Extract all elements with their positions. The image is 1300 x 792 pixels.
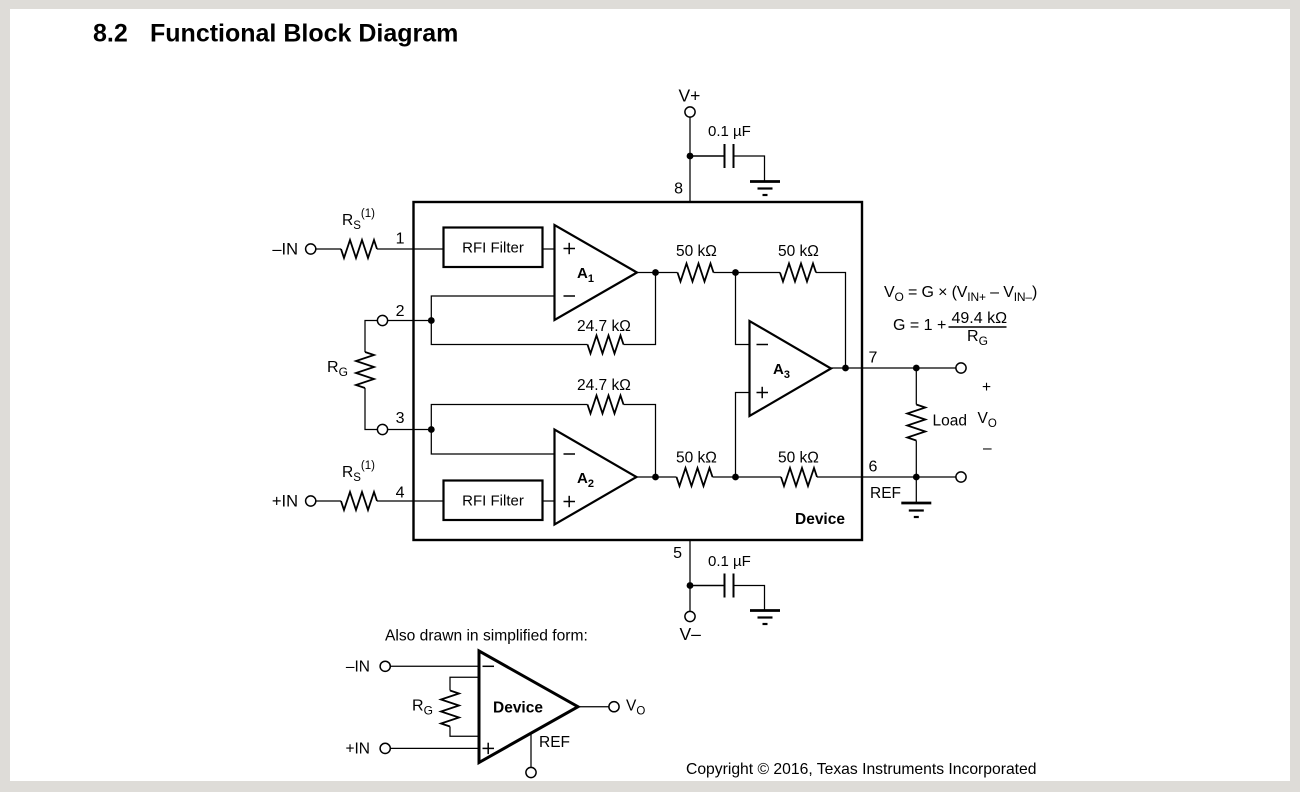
ground G1 xyxy=(750,182,780,196)
node VO terminal xyxy=(956,363,966,373)
wire amplifier output (simplified) xyxy=(578,706,609,708)
wire C2 to ground G3 xyxy=(734,586,765,611)
svg-text:V–: V– xyxy=(680,624,702,644)
wire REF to ground G2 xyxy=(915,477,917,503)
wire A1 minus feedback xyxy=(431,296,587,345)
svg-text:RG: RG xyxy=(967,328,988,348)
wire R2 to A2 output node xyxy=(624,405,656,478)
junction dot A3 minus node xyxy=(732,269,739,276)
svg-text:A2: A2 xyxy=(577,470,594,490)
svg-text:G = 1 +: G = 1 + xyxy=(893,317,946,334)
wire RG top stub (simplified) xyxy=(450,677,479,690)
resistor RS2 xyxy=(341,492,377,510)
wire load bottom xyxy=(915,441,917,478)
node +IN terminal (simplified) xyxy=(380,743,390,753)
wire pin 2 to feedback node xyxy=(388,320,432,322)
resistor RG xyxy=(356,352,374,388)
amplifier minus sign (simplified) xyxy=(483,665,495,667)
wire R3 to A3 minus node xyxy=(714,272,781,274)
op-amp A2 minus sign xyxy=(564,453,576,455)
junction dot V+ / C1 xyxy=(687,153,694,160)
svg-text:RS(1): RS(1) xyxy=(342,460,375,484)
svg-text:VO: VO xyxy=(978,410,997,430)
junction dot pin 3 node xyxy=(428,426,435,433)
svg-text:7: 7 xyxy=(869,350,878,367)
svg-text:RFI Filter: RFI Filter xyxy=(462,493,524,510)
capacitor C1 xyxy=(725,144,734,168)
wire RG bottom xyxy=(365,388,378,430)
svg-text:REF: REF xyxy=(539,734,570,751)
junction dot load top xyxy=(913,365,920,372)
svg-text:24.7 kΩ: 24.7 kΩ xyxy=(577,318,631,335)
node V+ terminal xyxy=(685,107,695,117)
wire RFI filter 2 to A2 plus input xyxy=(543,500,555,502)
svg-text:A1: A1 xyxy=(577,265,594,285)
node REF terminal (simplified) xyxy=(526,767,536,777)
svg-text:RS(1): RS(1) xyxy=(342,208,375,232)
resistor RL Load xyxy=(907,405,925,441)
node VO terminal (simplified) xyxy=(609,702,619,712)
equation fraction bar xyxy=(949,326,1007,328)
resistor R3 50k xyxy=(678,264,714,282)
node pin 2 circle xyxy=(377,315,387,325)
svg-text:Copyright © 2016, Texas Instru: Copyright © 2016, Texas Instruments Inco… xyxy=(686,761,1036,778)
svg-text:A3: A3 xyxy=(773,361,790,381)
ground G2 xyxy=(901,503,931,517)
wire R1 to A1 output node xyxy=(624,273,656,345)
wire R5 to A3 output node xyxy=(816,273,846,369)
node +IN terminal xyxy=(306,496,316,506)
svg-text:+: + xyxy=(982,379,991,396)
node V- terminal xyxy=(685,611,695,621)
svg-text:50 kΩ: 50 kΩ xyxy=(676,243,717,260)
op-amp A2 plus sign xyxy=(564,496,576,507)
svg-text:RG: RG xyxy=(412,698,433,718)
resistor R4 50k xyxy=(677,468,713,486)
wire V+ to pin 8 xyxy=(689,117,691,202)
capacitor C2 xyxy=(725,574,734,598)
op-amp A1 minus sign xyxy=(564,295,576,297)
svg-text:8.2: 8.2 xyxy=(93,20,128,48)
junction dot REF node xyxy=(913,474,920,481)
node -IN terminal (simplified) xyxy=(380,661,390,671)
svg-text:24.7 kΩ: 24.7 kΩ xyxy=(577,377,631,394)
resistor R2 24.7k xyxy=(588,396,624,414)
svg-text:RFI Filter: RFI Filter xyxy=(462,240,524,257)
wire +IN to RS2 xyxy=(316,500,341,502)
op-amp A3 plus sign xyxy=(757,387,769,398)
svg-text:49.4 kΩ: 49.4 kΩ xyxy=(952,310,1008,327)
svg-text:Load: Load xyxy=(933,413,967,430)
wire REF stub (simplified) xyxy=(530,734,532,768)
op-amp A3 xyxy=(750,321,832,416)
svg-text:+IN: +IN xyxy=(272,493,298,511)
resistor RG (simplified) xyxy=(441,691,459,727)
svg-text:Device: Device xyxy=(493,700,543,717)
junction dot V- / C2 xyxy=(687,582,694,589)
wire A1 output xyxy=(637,272,678,274)
node pin 3 circle xyxy=(377,424,387,434)
wire C1 to ground G1 xyxy=(734,156,765,181)
wire pin 3 to feedback node xyxy=(388,429,432,431)
resistor R5 50k xyxy=(780,264,816,282)
resistor R6 50k xyxy=(781,468,817,486)
junction dot A3 output xyxy=(842,365,849,372)
wire load top xyxy=(915,368,917,405)
junction dot A2 output xyxy=(652,474,659,481)
svg-text:–IN: –IN xyxy=(346,659,370,676)
op-amp A1 plus sign xyxy=(564,243,576,254)
svg-text:4: 4 xyxy=(396,485,405,502)
svg-text:2: 2 xyxy=(396,303,405,320)
wire pin 5 xyxy=(689,540,691,612)
wire A2 minus feedback xyxy=(431,405,587,455)
wire R4 to REF node xyxy=(713,476,782,478)
op-amp A3 minus sign xyxy=(757,344,769,346)
svg-text:–: – xyxy=(983,440,992,457)
junction dot A3 plus node xyxy=(732,474,739,481)
svg-text:0.1 µF: 0.1 µF xyxy=(708,123,751,140)
op-amp A1 xyxy=(555,225,638,320)
svg-text:VO: VO xyxy=(626,698,645,718)
device boundary box xyxy=(414,202,863,540)
svg-text:6: 6 xyxy=(869,459,878,476)
svg-text:0.1 µF: 0.1 µF xyxy=(708,553,751,570)
wire RG bottom stub (simplified) xyxy=(450,727,479,737)
svg-text:3: 3 xyxy=(396,410,405,427)
wire A2 plus node to A3 plus input xyxy=(736,393,750,478)
svg-text:50 kΩ: 50 kΩ xyxy=(778,450,819,467)
wire -IN to amplifier (simplified) xyxy=(390,665,479,667)
node -IN terminal xyxy=(306,244,316,254)
wire V- node to C2 xyxy=(690,585,725,587)
svg-text:V+: V+ xyxy=(679,86,701,106)
wire RG top xyxy=(365,321,378,353)
amplifier triangle (simplified) xyxy=(479,651,578,763)
wire R6 to REF terminal xyxy=(817,476,956,478)
amplifier plus sign (simplified) xyxy=(483,743,495,754)
junction dot pin 2 node xyxy=(428,317,435,324)
svg-text:50 kΩ: 50 kΩ xyxy=(676,450,717,467)
wire +IN to amplifier (simplified) xyxy=(390,747,479,749)
svg-text:REF: REF xyxy=(870,485,901,502)
heading 8.2 Functional Block Diagram xyxy=(93,20,458,48)
wire RFI filter 1 to A1 plus input xyxy=(543,248,555,250)
svg-text:Functional Block Diagram: Functional Block Diagram xyxy=(150,20,458,48)
svg-text:Also drawn in simplified form:: Also drawn in simplified form: xyxy=(385,628,588,645)
svg-text:Device: Device xyxy=(795,511,845,528)
wire -IN to RS1 xyxy=(316,248,341,250)
resistor R1 24.7k xyxy=(588,336,624,354)
wire V+ node to C1 xyxy=(690,155,725,157)
svg-text:RG: RG xyxy=(327,359,348,379)
resistor RS1 xyxy=(341,240,377,258)
svg-text:1: 1 xyxy=(396,231,405,248)
ground G3 xyxy=(750,611,780,625)
RFI filter 1 box xyxy=(444,228,543,268)
RFI filter 2 box xyxy=(444,481,543,521)
svg-text:VO = G × (VIN+ – VIN–): VO = G × (VIN+ – VIN–) xyxy=(884,284,1037,304)
svg-text:8: 8 xyxy=(674,181,683,198)
wire RS2 to RFI filter 2 xyxy=(377,500,444,502)
svg-text:–IN: –IN xyxy=(272,241,298,259)
node REF terminal xyxy=(956,472,966,482)
svg-text:+IN: +IN xyxy=(345,741,370,758)
svg-text:5: 5 xyxy=(673,545,682,562)
svg-text:50 kΩ: 50 kΩ xyxy=(778,243,819,260)
junction dot A1 output xyxy=(652,269,659,276)
wire A2 output xyxy=(637,476,677,478)
wire node to A3 minus input xyxy=(736,273,750,345)
wire RS1 to RFI filter 1 xyxy=(377,248,444,250)
op-amp A2 xyxy=(555,430,637,525)
wire A3 output to pin 7 terminal xyxy=(831,367,956,369)
